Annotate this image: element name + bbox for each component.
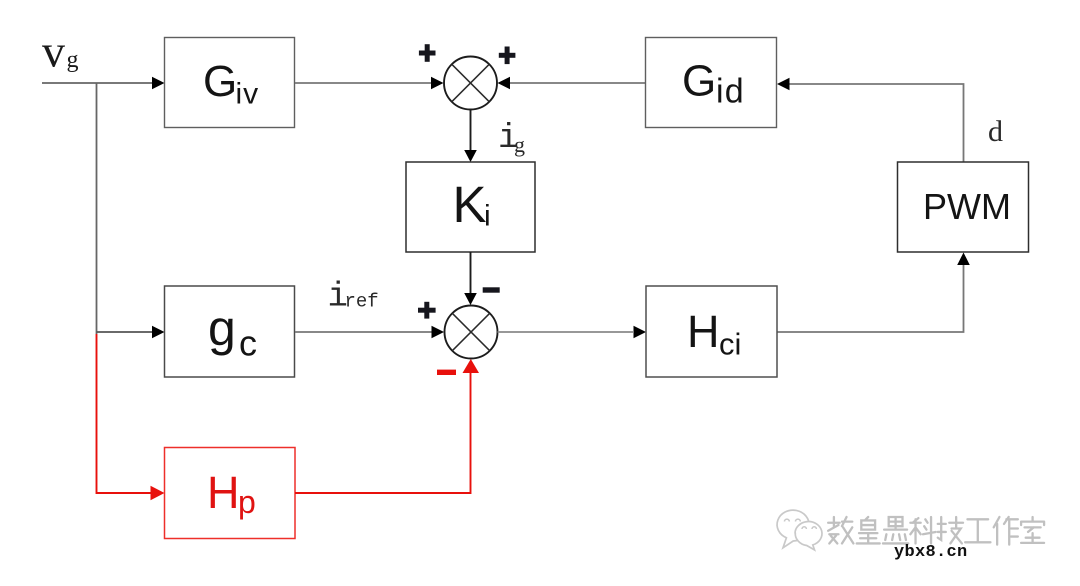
arrowhead into summing junction 2 left bbox=[432, 326, 445, 339]
svg-text:g: g bbox=[208, 300, 236, 356]
svg-text:d: d bbox=[988, 115, 1003, 148]
svg-text:PWM: PWM bbox=[923, 186, 1011, 227]
block g_c bbox=[165, 286, 295, 377]
wire: trunk junction to g_c bbox=[97, 331, 154, 333]
wire: G_iv output to summing junction 1 bbox=[295, 82, 432, 84]
svg-text:H: H bbox=[207, 467, 240, 518]
wire: summing junction 1 down to K_i bbox=[470, 110, 472, 152]
watermark text 教皇黑科技工作室 (drawn strokes) bbox=[828, 517, 1044, 545]
red wire: trunk continues down to H_p level bbox=[97, 334, 153, 493]
svg-text:ybx8.cn: ybx8.cn bbox=[894, 543, 968, 562]
char 皇 bbox=[857, 517, 880, 543]
wire: v_g input to G_iv bbox=[42, 82, 153, 84]
block G_iv bbox=[165, 38, 295, 128]
char 黑 bbox=[883, 517, 908, 543]
svg-text:p: p bbox=[238, 484, 256, 520]
svg-text:g: g bbox=[514, 132, 525, 157]
block K_i bbox=[406, 162, 535, 252]
small bubble eyes bbox=[802, 527, 806, 529]
arrowhead into summing junction 1 left bbox=[431, 77, 444, 90]
svg-text:i: i bbox=[484, 200, 491, 233]
red minus sign (sum2 bottom input) bbox=[437, 370, 456, 375]
svg-text:id: id bbox=[716, 73, 745, 111]
char 室 bbox=[1021, 517, 1044, 543]
char 科 bbox=[910, 517, 935, 543]
svg-text:iv: iv bbox=[236, 78, 260, 111]
watermark WeChat icon: big bubble bbox=[777, 510, 822, 550]
char 工 bbox=[965, 519, 990, 542]
arrowhead into H_ci left bbox=[634, 326, 647, 339]
plus sign (sum1 left input) bbox=[419, 44, 436, 62]
block H_ci bbox=[646, 286, 777, 377]
wire: H_ci output right and up to PWM bbox=[777, 265, 964, 332]
minus sign (sum2 top input) bbox=[483, 287, 500, 292]
node i_ref label bbox=[328, 279, 379, 317]
node v_g input label bbox=[42, 26, 79, 77]
watermark WeChat icon: small bubble bbox=[795, 522, 822, 550]
arrowhead into summing junction 2 top bbox=[464, 293, 477, 305]
arrowhead into g_c bbox=[152, 326, 165, 339]
svg-text:c: c bbox=[239, 323, 257, 364]
wire: g_c output to summing junction 2 bbox=[295, 331, 432, 333]
svg-text:g: g bbox=[67, 47, 79, 73]
red wire: H_p output right and up to summing junction 2 bottom bbox=[295, 371, 471, 493]
node i_g label bbox=[498, 120, 525, 158]
svg-text:G: G bbox=[682, 57, 716, 106]
summing junction 2 bbox=[445, 306, 498, 359]
summing junction 1 bbox=[444, 57, 497, 110]
arrowhead into PWM bottom bbox=[957, 253, 970, 266]
arrowhead into G_id right bbox=[777, 78, 790, 91]
wire: K_i down to summing junction 2 bbox=[470, 252, 472, 294]
arrowhead into G_iv bbox=[152, 77, 165, 90]
block PWM bbox=[898, 162, 1029, 252]
arrowhead into K_i top bbox=[464, 150, 477, 162]
svg-text:K: K bbox=[453, 176, 487, 233]
block H_p (red) bbox=[165, 448, 296, 539]
char 教 bbox=[828, 517, 853, 543]
plus sign (sum2 left input) bbox=[418, 302, 436, 319]
svg-text:v: v bbox=[42, 26, 65, 77]
red arrowhead into H_p bbox=[151, 486, 165, 500]
arrowhead into summing junction 1 right bbox=[498, 77, 511, 90]
red arrowhead into summing junction 2 bottom bbox=[463, 359, 480, 373]
plus sign (sum1 right input) bbox=[499, 47, 516, 65]
svg-text:ref: ref bbox=[345, 291, 379, 313]
block G_id bbox=[646, 38, 777, 128]
big bubble eyes bbox=[785, 519, 790, 521]
char 作 bbox=[994, 517, 1018, 545]
svg-text:ci: ci bbox=[719, 327, 741, 362]
svg-text:G: G bbox=[203, 57, 237, 106]
wire: summing junction 2 output to H_ci bbox=[498, 331, 634, 333]
svg-text:H: H bbox=[687, 306, 720, 357]
char 技 bbox=[938, 517, 963, 543]
wire: PWM up and left into G_id bbox=[790, 84, 964, 162]
wire: vertical trunk from v_g down to g_c junction bbox=[96, 83, 98, 334]
wire: G_id output into summing junction 1 right bbox=[510, 82, 646, 84]
